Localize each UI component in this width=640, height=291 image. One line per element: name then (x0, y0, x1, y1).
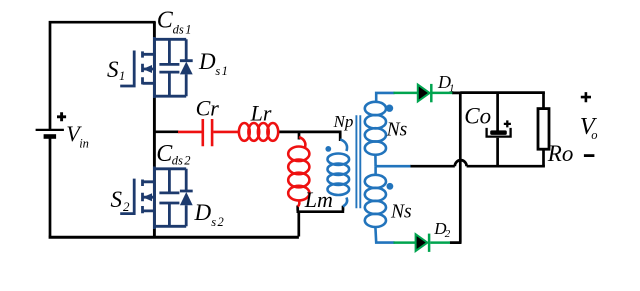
svg-text:C: C (156, 141, 173, 167)
svg-text:2: 2 (123, 199, 130, 214)
svg-text:in: in (79, 137, 89, 151)
svg-text:C: C (157, 8, 174, 34)
svg-text:Ro: Ro (547, 141, 574, 166)
svg-text:Ns: Ns (390, 201, 412, 222)
svg-text:2: 2 (445, 228, 451, 240)
svg-text:1: 1 (119, 69, 125, 83)
svg-text:2: 2 (218, 215, 224, 229)
svg-text:Cr: Cr (196, 96, 220, 121)
svg-text:1: 1 (222, 64, 228, 78)
svg-text:S: S (111, 187, 123, 212)
svg-text:Ns: Ns (386, 119, 408, 140)
svg-text:Np: Np (333, 112, 354, 131)
svg-text:s: s (211, 215, 216, 229)
svg-text:Lm: Lm (304, 187, 333, 212)
svg-text:o: o (591, 128, 597, 142)
svg-text:S: S (107, 57, 119, 82)
svg-text:D: D (198, 49, 216, 74)
svg-text:1: 1 (449, 83, 455, 95)
svg-text:ds: ds (173, 22, 184, 36)
svg-text:s: s (215, 64, 220, 78)
svg-text:2: 2 (184, 153, 190, 167)
svg-text:Lr: Lr (250, 100, 272, 125)
svg-text:D: D (194, 200, 212, 225)
svg-text:ds: ds (172, 153, 183, 167)
svg-text:1: 1 (185, 22, 191, 36)
svg-text:Co: Co (464, 103, 491, 128)
